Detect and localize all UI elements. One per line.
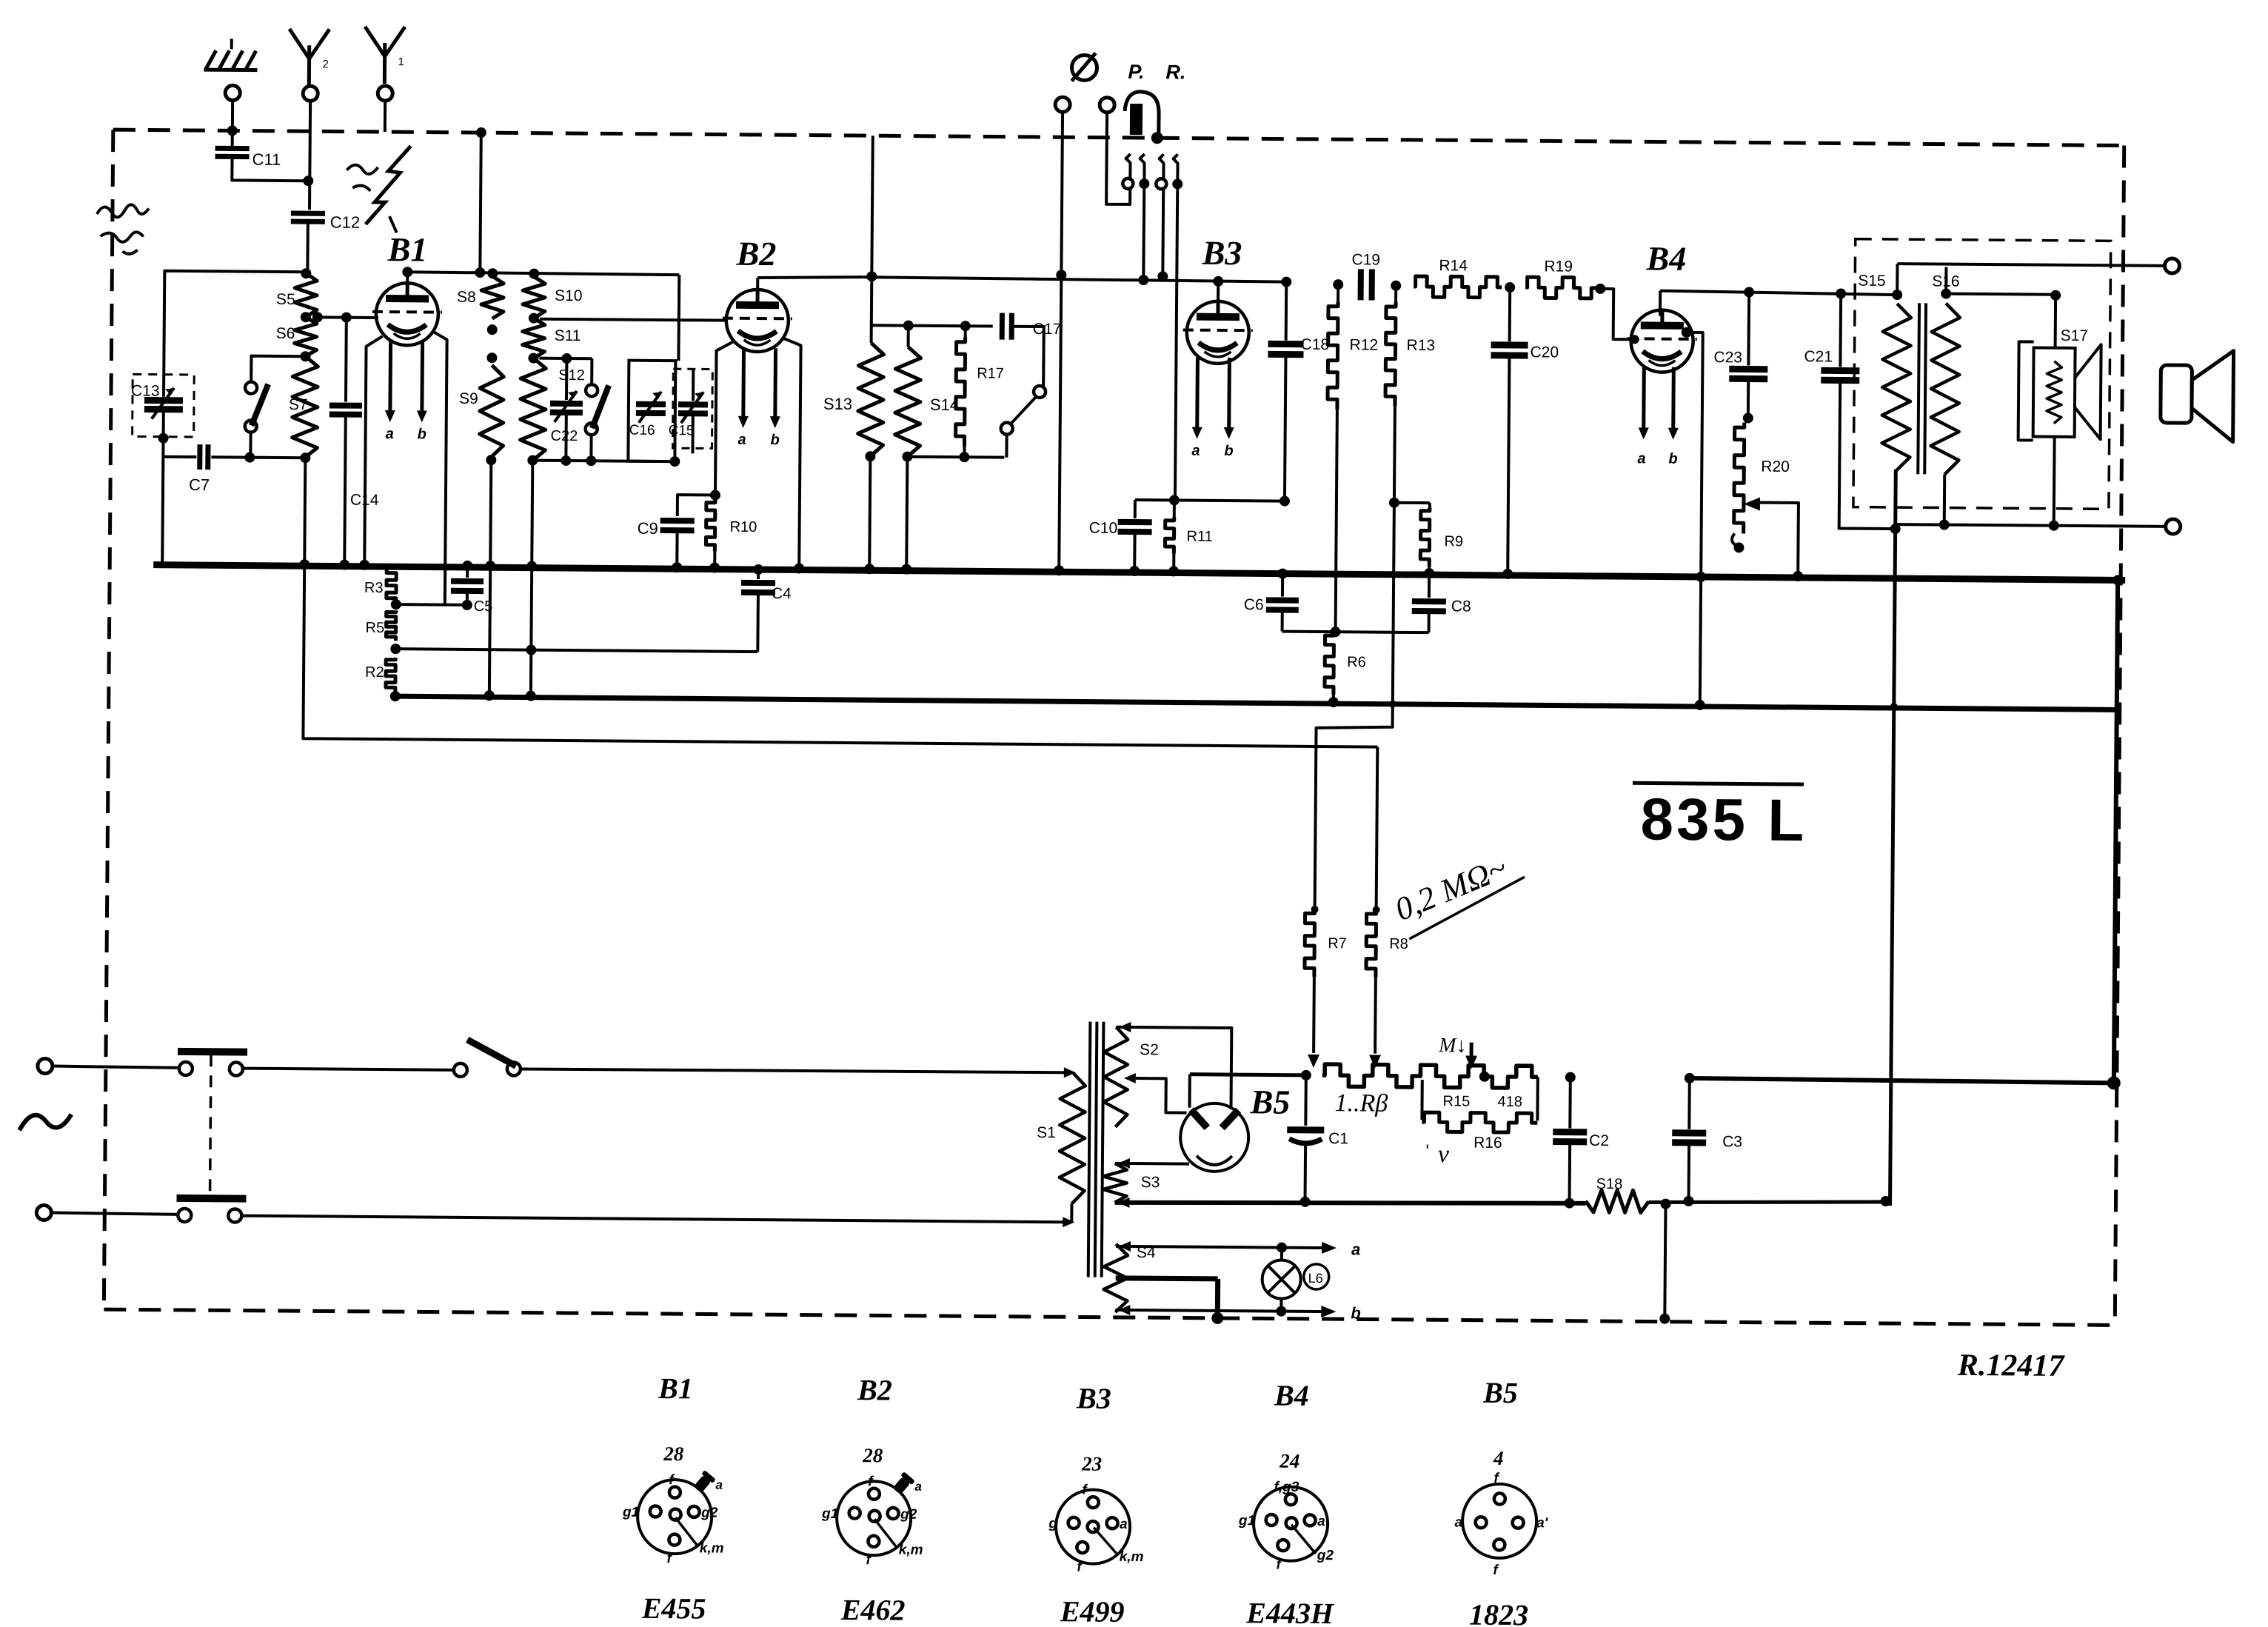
coil S13 (857, 343, 883, 456)
svg-text:R5: R5 (365, 620, 384, 636)
svg-text:S2: S2 (1140, 1041, 1159, 1058)
svg-text:B5: B5 (1250, 1083, 1291, 1120)
output terminal bottom (2166, 519, 2181, 534)
wire antenna1 to border (384, 101, 387, 132)
svg-text:a: a (1120, 1517, 1128, 1532)
wire AVC node row (1282, 632, 1429, 633)
inner dashed box speaker unit (1853, 239, 2111, 510)
rectifier B5 (1180, 1103, 1249, 1172)
svg-text:C4: C4 (772, 585, 792, 602)
external speaker icon (2161, 365, 2192, 423)
wire S3 bottom HT minus (1114, 1200, 1585, 1206)
svg-text:B3: B3 (1202, 234, 1242, 272)
resistor R20 preset (1734, 422, 1745, 533)
B3 filament lead a (1195, 358, 1200, 432)
B2 filament lead b (773, 348, 777, 421)
svg-text:B4: B4 (1645, 239, 1686, 277)
svg-text:C3: C3 (1722, 1133, 1742, 1150)
svg-text:S8: S8 (457, 289, 476, 306)
secondary S2 (1103, 1027, 1128, 1127)
capacitor C8 (1428, 575, 1431, 598)
capacitor C7 (197, 444, 202, 470)
wire top row B1 to S8/S10 (407, 272, 679, 275)
svg-text:C13: C13 (131, 382, 160, 399)
wire antenna2 down (310, 101, 310, 210)
resistor R12 (1333, 279, 1343, 290)
resistor R3 (395, 565, 398, 567)
wire S4 top to a (1116, 1246, 1282, 1248)
svg-text:g1: g1 (622, 1505, 639, 1520)
svg-text:g2: g2 (900, 1507, 917, 1523)
svg-text:R17: R17 (977, 365, 1004, 381)
capacitor C20 (1508, 287, 1512, 341)
wire S4 centre tap to chassis (1116, 1278, 1218, 1279)
capacitor C17 (1000, 313, 1005, 340)
variable capacitor C13 (144, 397, 183, 404)
wire S16 bottom row (1943, 475, 1947, 525)
svg-text:a: a (1351, 1240, 1360, 1258)
svg-text:418: 418 (1497, 1094, 1522, 1110)
label 835 L (1633, 783, 1804, 784)
wire C13 to bottom row (161, 410, 165, 457)
svg-text:b: b (1351, 1303, 1361, 1322)
svg-text:b: b (418, 426, 426, 442)
wire contact2 down (1142, 189, 1145, 280)
svg-text:C1: C1 (1328, 1130, 1348, 1147)
svg-text:g2: g2 (1317, 1548, 1334, 1563)
wire S7 to bottom row (249, 432, 252, 458)
svg-text:S10: S10 (555, 287, 583, 304)
wire B3 lower box (1135, 500, 1285, 501)
svg-text:C21: C21 (1804, 348, 1833, 365)
wire S16 top to output terminal (1897, 264, 2166, 266)
wire S18 to C3 node (1649, 1200, 1886, 1204)
mains transformer primary S1 (1059, 1072, 1085, 1203)
variable capacitor C22 (565, 358, 568, 400)
jack contact 4 (1173, 154, 1177, 179)
wire C13 junction to ground bus (162, 457, 163, 565)
svg-text:R12: R12 (1350, 336, 1379, 353)
svg-text:B1: B1 (387, 230, 428, 268)
svg-text:g2: g2 (700, 1505, 718, 1520)
B3 filament lead b (1227, 358, 1231, 432)
svg-text:S11: S11 (555, 327, 581, 344)
pilot lamp L6 (1262, 1260, 1300, 1298)
wire voice coil bottom (2053, 437, 2056, 526)
mains switch (243, 1069, 455, 1070)
svg-text:S17: S17 (2061, 327, 2089, 344)
svg-text:S1: S1 (1037, 1124, 1056, 1141)
transformer S16 secondary (1930, 303, 1960, 474)
svg-text:C7: C7 (189, 475, 210, 494)
ground bus wire (153, 565, 2125, 581)
resistor R13 (1391, 281, 1401, 291)
wire S11 bottom to bus2 (531, 461, 533, 698)
wire R13 to R9 (1394, 501, 1430, 504)
capacitor C19 (1358, 269, 1364, 300)
svg-text:R10: R10 (730, 519, 757, 535)
svg-text:S5: S5 (276, 291, 295, 308)
band filter box (628, 361, 675, 461)
capacitor C14 (341, 313, 352, 323)
svg-text:C15: C15 (669, 423, 695, 438)
B2 filament lead a (741, 348, 746, 421)
capacitor C18 (1285, 282, 1288, 341)
wire C13/C7 row (163, 455, 196, 458)
wire S2 top to B5 anode (1115, 1027, 1231, 1109)
ground symbol (230, 39, 233, 49)
svg-text:C6: C6 (1244, 596, 1264, 613)
triode B1 (376, 283, 439, 346)
wire S10 tap to B2 grid (540, 319, 728, 321)
resistor R17 (964, 326, 967, 337)
wire S4 bottom to b (1115, 1310, 1281, 1312)
wire S18 node to border (1665, 1204, 1665, 1319)
variable capacitor C13 dashed box (133, 374, 195, 437)
HT wire to right edge (1690, 1078, 2114, 1083)
svg-text:B2: B2 (857, 1373, 892, 1406)
coil S6 lower section (292, 356, 318, 458)
transformer core (1918, 303, 1919, 474)
coil S11 (522, 318, 544, 358)
AC symbol (19, 1114, 71, 1131)
svg-text:a: a (386, 426, 394, 442)
coil S5 (301, 268, 311, 278)
jack contact 3 (1159, 154, 1163, 179)
svg-text:1823: 1823 (1469, 1598, 1528, 1627)
svg-text:R8: R8 (1389, 936, 1408, 952)
svg-text:a: a (1637, 450, 1645, 467)
wire border down to S13 (872, 136, 873, 343)
wire R12 to R6 (1336, 410, 1337, 632)
svg-text:ˈ ν: ˈ ν (1423, 1140, 1450, 1168)
svg-text:S13: S13 (823, 395, 852, 413)
resistor R5 (386, 610, 395, 641)
svg-text:R15: R15 (1442, 1093, 1470, 1109)
R20 wiper arrow (1744, 497, 1760, 510)
resistor R9 (1428, 503, 1431, 507)
svg-text:g1: g1 (821, 1506, 838, 1522)
svg-text:g1: g1 (1238, 1513, 1255, 1529)
handwritten 0,2 Mohm (1390, 849, 1512, 928)
antenna 2 symbol (290, 29, 330, 59)
wire S6 node down to grid return row (303, 566, 1379, 746)
mains terminal bottom (36, 1205, 51, 1220)
svg-text:a: a (715, 1478, 723, 1492)
wire top row B2 to jack row (757, 276, 863, 278)
svg-text:R.12417: R.12417 (1957, 1349, 2066, 1383)
jack plug (1125, 92, 1159, 133)
wire cathode node to C9 (678, 495, 715, 516)
svg-text:R2: R2 (365, 664, 384, 681)
svg-text:C10: C10 (1089, 520, 1118, 537)
wire phone terminal down (1106, 113, 1131, 204)
capacitor C10 (1134, 500, 1137, 518)
speaker S17 voice coil (2033, 348, 2075, 437)
svg-text:M↓: M↓ (1438, 1034, 1467, 1057)
capacitor C21 (1836, 288, 1846, 298)
wire PSU return up (1884, 1202, 1887, 1206)
capacitor C6 (1277, 569, 1288, 579)
transformer core vertical (1088, 1022, 1091, 1277)
svg-text:835 L: 835 L (1640, 786, 1807, 853)
svg-text:R.: R. (1165, 61, 1185, 83)
B4 filament lead b (1671, 367, 1676, 432)
svg-text:C16: C16 (629, 423, 655, 438)
switch S12 (590, 358, 593, 384)
switch S7 (245, 382, 257, 394)
svg-text:23: 23 (1081, 1452, 1102, 1474)
coil S10 (529, 269, 539, 279)
resistor R2 (386, 658, 395, 692)
pickup symbol (1071, 55, 1097, 80)
wire top row to band box (677, 275, 680, 361)
wire B4 top cap (1659, 291, 1662, 316)
fuse link dashed (210, 1055, 211, 1195)
wire S15 bottom down to PSU (1890, 470, 1896, 1206)
output terminal top (2164, 258, 2179, 273)
svg-text:a': a' (1536, 1515, 1549, 1531)
coil S14 (907, 326, 910, 347)
svg-text:L6: L6 (1308, 1271, 1323, 1286)
dashed box C15 (672, 369, 712, 448)
svg-text:C18: C18 (1301, 336, 1330, 353)
svg-text:E462: E462 (840, 1593, 906, 1627)
capacitor C9 (660, 518, 695, 524)
svg-text:C19: C19 (1351, 251, 1380, 268)
wire S2 bottom to B5 anode (1135, 1078, 1186, 1113)
svg-text:C9: C9 (638, 519, 658, 538)
svg-text:C17: C17 (1033, 321, 1062, 338)
wire voice coil top (2054, 295, 2058, 348)
wire R13 down (1394, 407, 1395, 503)
triode B2 (726, 290, 789, 353)
svg-text:R20: R20 (1761, 458, 1790, 475)
svg-text:R11: R11 (1186, 529, 1212, 545)
svg-text:g: g (1048, 1516, 1057, 1531)
jack contact 2 (1140, 154, 1144, 179)
svg-text:a: a (1317, 1514, 1325, 1529)
svg-text:f,g3: f,g3 (1274, 1480, 1299, 1495)
B2 cathode lead down (715, 342, 733, 495)
transformer S15 primary (1892, 290, 1902, 300)
svg-text:E455: E455 (641, 1591, 706, 1626)
svg-text:C22: C22 (551, 428, 578, 444)
resistor R14 (1414, 276, 1502, 298)
second bus wire (395, 696, 2120, 709)
wire S16 top to speaker coil (1946, 294, 2055, 295)
wire S11 tap row (539, 357, 592, 361)
svg-text:2: 2 (322, 58, 328, 70)
resistor R11 (1173, 500, 1176, 517)
secondary S4 (1103, 1244, 1128, 1312)
fuse bottom (51, 1213, 178, 1215)
svg-text:B5: B5 (1482, 1376, 1518, 1409)
svg-text:B1: B1 (658, 1372, 693, 1405)
svg-text:C11: C11 (252, 150, 281, 169)
svg-text:C12: C12 (330, 213, 361, 231)
svg-text:B3: B3 (1076, 1381, 1111, 1414)
svg-text:S12: S12 (558, 367, 585, 384)
svg-text:R13: R13 (1407, 337, 1436, 354)
chassis dashed border (113, 130, 2124, 145)
B4 filament lead a (1642, 367, 1646, 432)
phone terminal (1100, 98, 1114, 113)
wire B5 to HT wire (1188, 1075, 1191, 1108)
svg-text:a: a (914, 1480, 922, 1494)
svg-text:k,m: k,m (700, 1540, 724, 1556)
svg-text:R6: R6 (1347, 654, 1366, 670)
svg-text:R7: R7 (1328, 935, 1347, 952)
svg-text:a: a (1191, 443, 1200, 459)
resistor S18 (1585, 1190, 1648, 1213)
wire S14 bottom row (907, 457, 1004, 458)
svg-text:k,m: k,m (899, 1543, 923, 1558)
wire B1 top cap (406, 272, 409, 283)
capacitor C4 (753, 564, 763, 575)
wire S3 top to B5 filament (1115, 1162, 1189, 1166)
ground terminal (225, 85, 240, 100)
svg-text:b: b (770, 432, 779, 448)
B1 filament lead b (420, 341, 424, 415)
capacitor C12 (291, 211, 325, 216)
antenna 1 terminal (378, 86, 392, 101)
secondary S3 (1103, 1163, 1126, 1203)
wire B3 top cap (1217, 281, 1220, 301)
coil S6 (294, 317, 316, 356)
wire border down to top row (480, 133, 481, 273)
resistor R6 (1325, 632, 1334, 695)
capacitor C23 (1744, 287, 1754, 297)
svg-text:S9: S9 (459, 390, 478, 407)
wire S14 bottom to bus (906, 457, 907, 571)
svg-text:R14: R14 (1439, 257, 1468, 274)
wire S6 bottom to bus (304, 458, 305, 566)
coil S11 lower section (520, 358, 546, 460)
pot arrow wiper (1465, 1056, 1477, 1069)
resistor R8 (1366, 909, 1376, 977)
fuse top (53, 1066, 180, 1068)
capacitor C11 (215, 146, 250, 151)
svg-text:b: b (1224, 443, 1233, 459)
svg-text:E499: E499 (1060, 1594, 1125, 1627)
wire bus right end down to PSU (2114, 580, 2118, 1083)
svg-text:S18: S18 (1596, 1176, 1623, 1192)
coil S9 (479, 365, 504, 457)
svg-text:a: a (1454, 1514, 1462, 1530)
wire ground to C11 (231, 100, 234, 147)
wire top row jack to B3 (863, 277, 1286, 281)
wire AVC from R5 to C4 (395, 649, 757, 652)
svg-text:C20: C20 (1530, 344, 1559, 361)
svg-text:R9: R9 (1444, 533, 1463, 549)
svg-text:R16: R16 (1473, 1135, 1502, 1152)
svg-text:S15: S15 (1858, 273, 1886, 290)
svg-text:S7: S7 (289, 396, 308, 413)
mains terminal top (38, 1058, 53, 1073)
capacitor C2 (1565, 1072, 1576, 1083)
triode B3 (1186, 301, 1249, 364)
svg-text:b: b (1668, 451, 1677, 467)
svg-text:P.: P. (1128, 61, 1144, 83)
svg-text:28: 28 (663, 1443, 684, 1465)
svg-text:k,m: k,m (1120, 1549, 1144, 1565)
wire R3 node row (396, 603, 467, 607)
wire R13 node down to R7 (1315, 502, 1394, 910)
B2 right lead to bus (780, 338, 800, 569)
capacitor C1 (1301, 1070, 1311, 1080)
B1 left lead to bus (364, 336, 382, 567)
wire B2 top cap (756, 278, 759, 290)
wire top row B4 to transformer (1660, 291, 1897, 295)
svg-text:C23: C23 (1713, 349, 1742, 366)
capacitor C5 (466, 567, 469, 578)
svg-text:S3: S3 (1141, 1174, 1160, 1191)
svg-text:B4: B4 (1274, 1379, 1309, 1412)
capacitor C3 (1685, 1073, 1695, 1083)
svg-text:C8: C8 (1451, 598, 1471, 615)
wire R19 to B4 grid (1600, 289, 1640, 339)
wire top row to C13 (164, 271, 305, 398)
antenna 1 symbol (365, 27, 405, 56)
wire C7 to S6 bottom (211, 455, 305, 459)
wire contact3 down (1161, 189, 1165, 276)
wire pickup terminal down (1059, 112, 1063, 572)
speaker S17 bracket (2018, 341, 2034, 440)
B1 right lead to cathode node (431, 332, 447, 605)
svg-text:S6: S6 (276, 325, 295, 342)
handwritten scribble left (97, 204, 150, 254)
wire grid return to R8 (1376, 747, 1378, 910)
svg-text:R19: R19 (1544, 258, 1573, 275)
wire S9 bottom to bus2 (489, 460, 492, 697)
wire C12 to coil S5 (306, 221, 310, 273)
coil S8 (487, 268, 498, 278)
svg-text:1..Rβ: 1..Rβ (1334, 1089, 1388, 1117)
pickup terminal (1055, 97, 1070, 112)
B4 grid right wire (1682, 327, 1692, 338)
speaker S17 cone (2075, 344, 2101, 439)
wire contact4 down (1175, 189, 1177, 500)
wire S14 row top (872, 325, 993, 326)
resistor R10 (714, 495, 717, 500)
svg-text:28: 28 (862, 1444, 883, 1466)
resistor R19 (1525, 277, 1596, 298)
antenna 2 terminal (303, 86, 318, 101)
wire grid row B1 (318, 315, 378, 319)
svg-text:E443H: E443H (1245, 1596, 1335, 1627)
variable capacitor C16 (636, 401, 666, 407)
potentiometer R volume (1322, 1064, 1538, 1088)
wire C11 to antenna wire (232, 156, 308, 181)
switch S7 wire (251, 356, 305, 382)
tetrode B4 (1630, 310, 1693, 372)
jack break contacts (1011, 327, 1044, 386)
B1 filament lead a (388, 341, 392, 415)
svg-text:1: 1 (398, 56, 404, 68)
resistor R7 (1305, 909, 1315, 977)
svg-text:4: 4 (1493, 1447, 1504, 1469)
resistor R15 parallel loop (1420, 1080, 1423, 1120)
svg-text:C2: C2 (1589, 1132, 1609, 1149)
svg-text:B2: B2 (735, 235, 776, 273)
svg-text:a: a (737, 432, 746, 448)
svg-text:24: 24 (1279, 1450, 1299, 1472)
handwritten lightning scribble (366, 146, 411, 224)
jack contact 1 (1125, 154, 1130, 179)
svg-text:R3: R3 (364, 580, 384, 596)
variable capacitor C15 (692, 369, 695, 401)
